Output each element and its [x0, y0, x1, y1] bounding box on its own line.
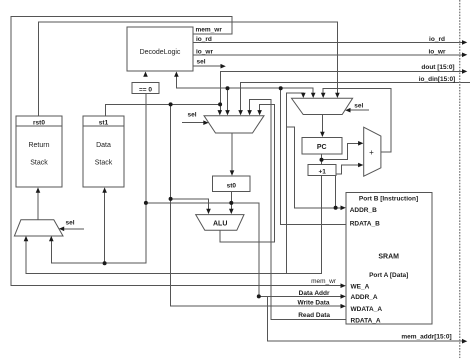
- arrowhead dout output: [462, 69, 467, 74]
- svg-text:RDATA_B: RDATA_B: [350, 220, 380, 227]
- wire st0 riser to ==0: [145, 94, 147, 203]
- wire st0 push to Data Stack bottom: [104, 193, 106, 263]
- arrowhead WDATA_A: [341, 304, 346, 309]
- wire st0 horizontal net: [146, 202, 259, 204]
- svg-text:st0: st0: [227, 182, 237, 189]
- mux rstkD (Return Stack data select): [14, 220, 63, 236]
- wire rst0 output: rst0 top, up, across top, down to PC mux input 4: [39, 22, 338, 116]
- arrowhead sel into st0 mux: [203, 120, 208, 125]
- arrowhead st0 to Data Stack bottom: [102, 187, 107, 192]
- arrowhead st0 mux input 3: [238, 110, 243, 115]
- block Return Stack rst0: [16, 116, 62, 187]
- arrowhead ALU right input: [229, 209, 234, 214]
- arrowhead sel into Return Stack mux: [59, 227, 64, 232]
- svg-text:+1: +1: [318, 168, 326, 175]
- svg-text:sel: sel: [188, 111, 197, 118]
- wire PC to +1: [321, 154, 323, 165]
- svg-text:+: +: [369, 148, 374, 157]
- svg-text:io_wr: io_wr: [429, 48, 446, 55]
- arrowhead PC mux input 4: [335, 93, 340, 98]
- junction dot ADDR_A at st0 riser: [257, 294, 261, 298]
- wire insn tap to st0 mux input 2: [227, 88, 229, 111]
- arrowhead st0 mux input 4: [247, 110, 252, 115]
- junction dot st0 net at ==0 riser: [144, 201, 148, 205]
- svg-text:st1: st1: [99, 119, 109, 126]
- block DecodeLogic: [127, 27, 193, 71]
- wire st1 branch to ALU left input: [171, 199, 209, 211]
- wire mem_wr loop: DecodeLogic right, up, across top, down left side, along bottom to SRAM WE_A: [11, 16, 343, 285]
- wire st0 down-branch to stack push data: [51, 203, 146, 263]
- svg-text:rst0: rst0: [33, 119, 45, 126]
- arrowhead sel into PC mux: [345, 108, 350, 113]
- svg-text:io_rd: io_rd: [196, 36, 212, 43]
- junction dot insn at st0 mux tap: [226, 86, 230, 90]
- wire insn from instruction fetch to DecodeLogic and taps: [176, 77, 313, 95]
- arrowhead Return Stack mux input left: [24, 236, 29, 241]
- svg-text:Write Data: Write Data: [297, 300, 329, 307]
- arrowhead io_rd output: [462, 40, 467, 45]
- arrowhead PC mux input 3: [321, 93, 326, 98]
- arrowhead io_wr output: [462, 53, 467, 58]
- svg-text:ADDR_A: ADDR_A: [351, 294, 378, 301]
- arrowhead ALU left input: [206, 209, 211, 214]
- wire io_din [15:0]: [241, 82, 470, 111]
- wire st1 bus from Data Stack top: [106, 104, 221, 115]
- arrowhead Return Stack mux input right: [49, 236, 54, 241]
- svg-text:Port A [Data]: Port A [Data]: [369, 272, 408, 279]
- wire ALU output loop to st0 mux input 5: [220, 105, 275, 243]
- arrowhead sel stub DecodeLogic: [221, 64, 226, 69]
- svg-text:Data: Data: [96, 142, 111, 149]
- block SRAM: [346, 193, 432, 324]
- svg-text:mem_addr[15:0]: mem_addr[15:0]: [401, 334, 451, 341]
- wire mem_addr[15:0]: [267, 296, 463, 341]
- wire return-address line to Return Stack mux left input: [26, 176, 322, 274]
- block +1 incrementer: [308, 164, 336, 175]
- junction dot ADDR_B at adder branch: [334, 206, 338, 210]
- svg-text:PC: PC: [317, 144, 327, 151]
- mux PC select: [292, 98, 353, 114]
- wire dout riser / st0mux input 1 drop: [219, 71, 221, 111]
- svg-text:Return: Return: [28, 142, 49, 149]
- wire Return Stack mux output to rst0: [37, 193, 39, 221]
- svg-text:io_rd: io_rd: [429, 36, 445, 43]
- junction dot PC output: [320, 158, 324, 162]
- svg-text:== 0: == 0: [139, 87, 152, 94]
- wire sel stub of PC mux: [350, 109, 369, 111]
- svg-text:io_wr: io_wr: [196, 48, 213, 55]
- svg-text:dout [15:0]: dout [15:0]: [421, 64, 454, 71]
- svg-text:mem_wr: mem_wr: [196, 27, 223, 34]
- wire branch at 126.9 over to ADDR_B: [287, 127, 343, 208]
- junction dot st0 output: [229, 201, 233, 205]
- block ALU: [196, 215, 244, 231]
- wire sel stub from DecodeLogic: [193, 65, 221, 67]
- wire adder output loop to PC mux input 3: [323, 88, 391, 152]
- junction dot st1 bus at dout riser: [218, 102, 222, 106]
- wire sel stub of Return Stack mux: [63, 228, 84, 230]
- svg-text:WE_A: WE_A: [351, 284, 370, 291]
- register st0: [213, 176, 251, 191]
- svg-text:Data Addr: Data Addr: [299, 290, 330, 297]
- arrowhead st0 mux input 2: [225, 110, 230, 115]
- junction dot st1 net at ALU branch: [169, 197, 173, 201]
- register PC: [302, 137, 342, 154]
- svg-text:SRAM: SRAM: [378, 253, 399, 260]
- junction dot st1 bus at riser: [169, 102, 173, 106]
- wire io_rd: [193, 41, 463, 43]
- arrowhead adder lower input: [358, 163, 363, 168]
- arrowhead ==0 to DecodeLogic: [143, 72, 148, 77]
- wire PC to adder upper input: [322, 143, 360, 159]
- wire next-address net: PC mux input 1, ADDR_B: [287, 93, 304, 274]
- svg-text:Stack: Stack: [30, 160, 48, 167]
- arrowhead PC mux output into PC: [320, 132, 325, 137]
- wire st1 riser to ALU left input and WDATA_A: [171, 104, 343, 306]
- svg-text:sel: sel: [354, 102, 363, 109]
- mux adder +: [364, 127, 381, 176]
- wire sel stub of st0 mux: [183, 122, 205, 124]
- svg-text:ADDR_B: ADDR_B: [350, 207, 377, 214]
- svg-text:RDATA_A: RDATA_A: [351, 317, 381, 324]
- wire io_wr: [193, 54, 463, 56]
- wire st0 branch to ADDR_A: [259, 203, 343, 297]
- wire ADDR_B branch to adder lower input: [336, 165, 360, 208]
- wire insn riser to SRAM RDATA_B: [281, 88, 346, 224]
- junction dot insn at RDATA_B riser: [279, 86, 283, 90]
- arrowhead PC mux input 2: [311, 93, 316, 98]
- svg-text:ALU: ALU: [213, 221, 227, 228]
- wire PC mux output to PC: [321, 115, 323, 133]
- arrowhead mem_addr output: [462, 339, 467, 344]
- wire dout [15:0]: [220, 70, 463, 72]
- svg-text:Stack: Stack: [95, 160, 113, 167]
- block Data Stack st1: [83, 116, 124, 187]
- svg-text:io_din[15:0]: io_din[15:0]: [419, 76, 455, 83]
- arrowhead ADDR_A: [341, 294, 346, 299]
- svg-text:sel: sel: [197, 59, 206, 66]
- block ==0 comparator: [132, 83, 159, 94]
- arrowhead WE_A: [341, 283, 346, 288]
- wire Read Data from SRAM RDATA_A to st0 mux input 4: [250, 99, 346, 319]
- arrowhead st0 mux input 5: [257, 110, 262, 115]
- mux st0 select: [204, 116, 264, 133]
- module boundary dotted line: [459, 0, 461, 358]
- arrowhead PC mux input 1: [301, 93, 306, 98]
- arrowhead st0 mux output into st0: [230, 170, 235, 175]
- svg-text:DecodeLogic: DecodeLogic: [140, 49, 181, 56]
- arrowhead mux to Return Stack bottom: [36, 187, 41, 192]
- arrowhead adder upper input: [358, 141, 363, 146]
- junction dot st0 push line at Data Stack: [103, 261, 107, 265]
- wire st0 mux output to st0: [231, 133, 233, 172]
- svg-text:sel: sel: [66, 219, 75, 226]
- wire st0 output down to ALU right input: [230, 191, 232, 210]
- svg-text:Port B [Instruction]: Port B [Instruction]: [359, 195, 418, 202]
- svg-text:Read Data: Read Data: [298, 312, 330, 319]
- arrowhead insn to DecodeLogic: [174, 72, 179, 77]
- svg-text:mem_wr: mem_wr: [311, 278, 337, 285]
- arrowhead st0 mux input 1: [218, 110, 223, 115]
- svg-text:WDATA_A: WDATA_A: [351, 306, 383, 313]
- arrowhead ADDR_B: [341, 206, 346, 211]
